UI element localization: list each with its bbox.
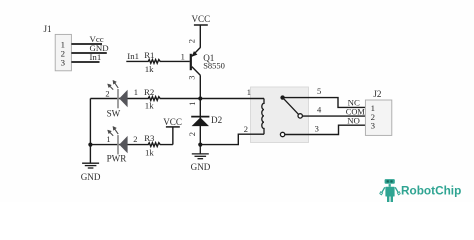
- relay pin 5 number: [317, 86, 321, 96]
- wire node down through diode D2 to lower node: [199, 99, 201, 145]
- net label NC: [348, 97, 360, 107]
- wire left rail (SW row down to GND): [89, 99, 91, 163]
- LED SW (D, pointing left): [118, 89, 128, 108]
- relay switch arm: [284, 99, 299, 114]
- wire Q1 collector to node: [199, 75, 201, 98]
- LED PWR emission arrows: [108, 126, 119, 135]
- svg-text:2: 2: [133, 134, 137, 144]
- wire relay pin 4 to J2 pin 2 (COM): [302, 115, 365, 117]
- svg-text:GND: GND: [81, 172, 101, 182]
- resistor R3 refdes label: [144, 133, 155, 143]
- resistor R2 refdes label: [144, 87, 154, 97]
- net label In1 at R1 input: [127, 51, 139, 61]
- Q1 refdes label: [203, 53, 214, 63]
- svg-text:RobotChip: RobotChip: [401, 183, 461, 197]
- svg-text:1k: 1k: [145, 101, 154, 111]
- LED PWR pin 1 number: [106, 134, 110, 144]
- ground symbol below D2: [192, 145, 209, 159]
- svg-text:VCC: VCC: [191, 14, 210, 24]
- svg-text:In1: In1: [127, 51, 139, 61]
- net label In1: [90, 52, 102, 62]
- RobotChip logo text: [401, 183, 461, 197]
- svg-text:3: 3: [371, 121, 376, 131]
- RobotChip logo robot icon: [380, 179, 400, 202]
- wire PWR row with resistor R3 zigzag to VCC stub: [90, 143, 172, 147]
- svg-text:5: 5: [317, 86, 321, 96]
- connector J2 refdes label: [373, 89, 382, 99]
- net label Vcc: [90, 34, 104, 44]
- transistor Q1 (PNP S8550): [191, 48, 201, 76]
- svg-text:1: 1: [181, 52, 185, 62]
- relay pin 4 number: [317, 104, 322, 114]
- GND label at left rail: [81, 172, 101, 182]
- svg-text:2: 2: [187, 132, 197, 136]
- wire SW row with resistor R2 zigzag: [90, 97, 200, 101]
- wire J1 pin1 stub (net Vcc): [71, 43, 102, 45]
- J2 pin 3 number: [371, 121, 376, 131]
- svg-text:1: 1: [134, 87, 138, 97]
- wire relay pin 3 to J2 pin 3 (NO, stepped): [285, 125, 366, 134]
- svg-text:R3: R3: [144, 133, 155, 143]
- svg-text:3: 3: [61, 57, 66, 67]
- wire In1 to R1 and resistor R1 zigzag to Q1 base: [126, 60, 189, 64]
- LED SW emission arrows: [108, 80, 119, 89]
- net label COM: [346, 107, 366, 116]
- relay K1 body: [251, 87, 309, 143]
- D2 refdes label: [211, 115, 223, 125]
- LED SW pin 2 number: [105, 89, 109, 99]
- wire VCC stub down to R3: [172, 127, 174, 145]
- relay NO-side contact circle: [280, 132, 284, 136]
- svg-text:GND: GND: [191, 162, 211, 172]
- J2 pin 2 number: [371, 112, 375, 122]
- LED SW pin 1 number: [134, 87, 138, 97]
- relay coil pin 1 number: [247, 87, 251, 97]
- resistor R1 value 1k: [145, 64, 154, 74]
- diode D2 (cathode bar up, triangle pointing up): [191, 117, 209, 127]
- power symbol VCC (top): [191, 14, 210, 25]
- svg-text:1k: 1k: [145, 64, 154, 74]
- svg-text:3: 3: [187, 75, 197, 79]
- svg-text:In1: In1: [90, 52, 102, 62]
- svg-text:2: 2: [105, 89, 109, 99]
- connector J1 refdes label: [44, 24, 52, 34]
- svg-text:D2: D2: [211, 115, 223, 125]
- junction node on left rail at PWR row: [88, 143, 92, 147]
- relay pin 3 number: [315, 123, 319, 133]
- svg-text:S8550: S8550: [203, 60, 225, 70]
- J1 pin 3 number: [61, 57, 66, 67]
- svg-text:J2: J2: [373, 89, 382, 99]
- LED PWR refdes label: [107, 153, 128, 163]
- LED SW refdes label: [107, 108, 121, 118]
- GND label below D2: [191, 162, 211, 172]
- svg-text:1: 1: [187, 102, 197, 106]
- D2 pin 1 number (rotated): [187, 102, 197, 106]
- power symbol VCC (at R3): [163, 117, 182, 127]
- relay coil: [262, 99, 264, 135]
- J1 pin 2 number: [61, 48, 65, 58]
- connector J2 body: [365, 100, 391, 135]
- net label GND: [90, 43, 109, 53]
- resistor R3 value 1k: [145, 148, 154, 158]
- junction node at Q1 collector / R2 / D2 / relay coil: [198, 96, 202, 100]
- Q1 emitter pin 2 number (rotated): [187, 39, 197, 43]
- svg-text:SW: SW: [107, 108, 121, 118]
- Q1 base pin 1 number: [181, 52, 185, 62]
- D2 pin 2 number (rotated): [187, 132, 197, 136]
- svg-text:3: 3: [315, 123, 319, 133]
- wire J1 pin2 stub (net GND): [71, 52, 106, 54]
- resistor R1 refdes label: [144, 50, 154, 60]
- svg-text:VCC: VCC: [163, 117, 182, 127]
- wire D2 anode node to relay coil pin 2 (stepped): [200, 134, 264, 144]
- svg-text:1: 1: [247, 87, 251, 97]
- svg-text:1k: 1k: [145, 148, 154, 158]
- svg-text:R2: R2: [144, 87, 154, 97]
- LED PWR pin 2 number: [133, 134, 137, 144]
- resistor R2 value 1k: [145, 101, 154, 111]
- ground symbol at left rail: [82, 163, 99, 168]
- wire J1 pin3 stub (net In1): [71, 61, 99, 63]
- svg-text:2: 2: [244, 124, 248, 134]
- J2 pin 1 number: [371, 103, 375, 113]
- Q1 collector pin 3 number (rotated): [187, 75, 197, 79]
- connector J1 body: [55, 34, 71, 70]
- svg-text:PWR: PWR: [107, 153, 128, 163]
- wire node to relay coil pin 1: [200, 98, 264, 100]
- Q1 value S8550: [203, 60, 225, 70]
- junction node at D2 anode / GND / relay coil pin 2: [198, 143, 202, 147]
- svg-text:1: 1: [106, 134, 110, 144]
- svg-text:NO: NO: [347, 115, 360, 125]
- wire relay pin 5 to J2 pin 1 (NC, stepped): [283, 98, 366, 108]
- net label NO: [347, 115, 360, 125]
- svg-text:J1: J1: [44, 24, 52, 34]
- relay coil pin 2 number: [244, 124, 248, 134]
- svg-text:R1: R1: [144, 50, 154, 60]
- J1 pin 1 number: [61, 39, 65, 49]
- relay NC-side contact circle: [298, 114, 302, 118]
- wire VCC to Q1 emitter: [199, 25, 201, 48]
- svg-text:NC: NC: [348, 97, 360, 107]
- relay common contact (filled): [280, 95, 284, 99]
- svg-text:2: 2: [187, 39, 197, 43]
- LED PWR (pointing left): [118, 135, 128, 154]
